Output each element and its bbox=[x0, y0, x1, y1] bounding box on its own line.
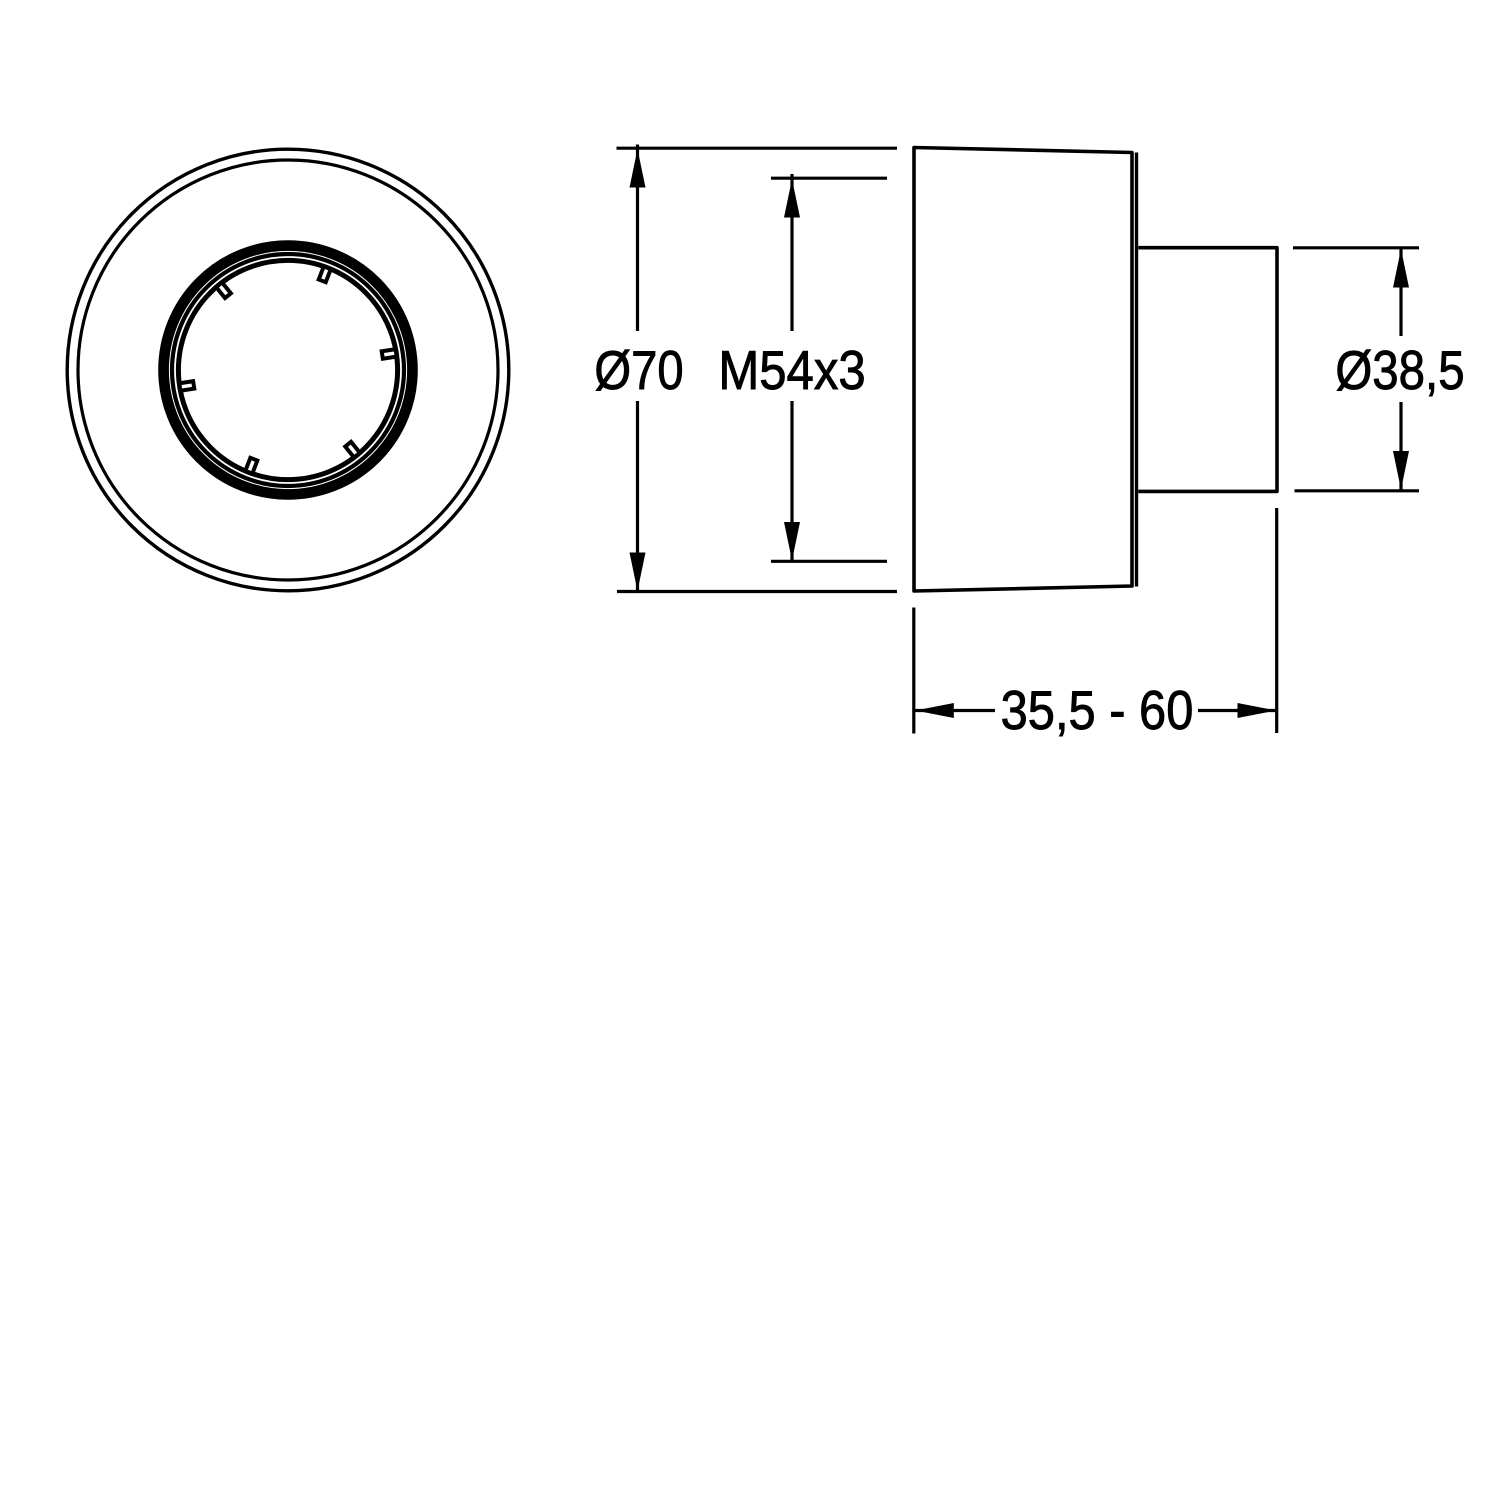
side view: body cone outline bbox=[914, 148, 1277, 592]
35,5-60 right arrow bbox=[1238, 703, 1277, 718]
tooth 5 (upper left, -129deg) bbox=[216, 282, 231, 298]
35,5-60 left arrow bbox=[915, 703, 954, 718]
O70 label bbox=[594, 340, 683, 401]
O70 top arrow bbox=[630, 149, 646, 188]
35,5-60 dimension line bbox=[915, 709, 995, 712]
tooth 2 (lower right, 51deg) bbox=[345, 442, 360, 458]
35,5-60 label bbox=[1001, 680, 1194, 741]
M54x3 bottom extension line bbox=[771, 560, 887, 563]
svg-text:35,5 - 60: 35,5 - 60 bbox=[1001, 680, 1194, 741]
M54x3 bottom arrow bbox=[784, 522, 800, 561]
front view: tube ring third circle bbox=[172, 254, 404, 486]
M54x3 top arrow bbox=[784, 179, 800, 218]
O70 bottom arrow bbox=[630, 553, 646, 592]
O38,5 top arrow bbox=[1393, 249, 1409, 288]
svg-text:Ø38,5: Ø38,5 bbox=[1335, 339, 1464, 401]
M54x3 label bbox=[718, 340, 865, 401]
O38,5 dimension line bbox=[1399, 249, 1402, 336]
M54x3 dimension line bbox=[790, 174, 793, 331]
front view: inner edge circle of flange face bbox=[78, 160, 498, 580]
front view: outer circle of flange (O70) bbox=[67, 149, 509, 591]
tooth 6 (upper right, -69deg) bbox=[319, 266, 331, 282]
dimension O70 bbox=[617, 145, 898, 592]
side view: small cylinder bbox=[1138, 248, 1277, 492]
dimension O38,5 bbox=[1293, 248, 1419, 491]
front view: tube ring inner circle bbox=[178, 260, 397, 479]
dimension 35,5 - 60 bbox=[914, 508, 1277, 734]
O70 top extension line bbox=[617, 147, 898, 150]
front view: tube ring second circle bbox=[167, 249, 408, 490]
O70 dimension line bbox=[636, 145, 639, 332]
tooth 1 (right, -9deg) bbox=[382, 349, 397, 359]
35,5-60 left extension line bbox=[912, 608, 915, 734]
35,5-60 right extension line bbox=[1275, 508, 1278, 733]
front view: tube ring outer thick circle bbox=[162, 244, 414, 496]
svg-text:M54x3: M54x3 bbox=[718, 340, 865, 401]
O38,5 bottom extension line bbox=[1295, 489, 1420, 492]
svg-text:Ø70: Ø70 bbox=[594, 340, 683, 401]
dimension M54x3 bbox=[771, 174, 887, 561]
tooth 4 (left, 171deg) bbox=[179, 381, 194, 391]
side view: right cap line bbox=[1135, 153, 1138, 587]
O38,5 bottom arrow bbox=[1393, 451, 1409, 490]
O38,5 label bbox=[1335, 339, 1464, 401]
O38,5 top extension line bbox=[1293, 246, 1419, 249]
M54x3 top extension line bbox=[771, 177, 887, 180]
O70 bottom extension line bbox=[617, 590, 897, 593]
tooth 3 (lower left, 111deg) bbox=[245, 458, 257, 474]
